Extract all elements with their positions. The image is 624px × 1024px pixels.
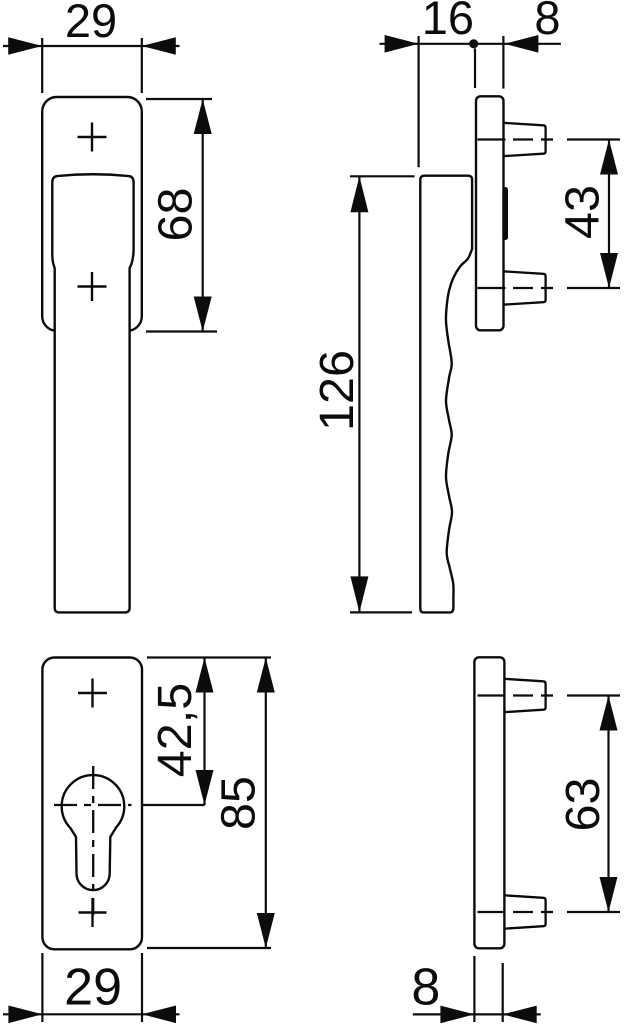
- front view: keyhole horizontal center line: [54, 804, 132, 806]
- dimension 29 (top): width of rose: [3, 0, 180, 93]
- svg-text:29: 29: [65, 0, 117, 47]
- svg-text:68: 68: [149, 188, 203, 242]
- front view: euro-profile cylinder keyhole: [62, 775, 125, 890]
- svg-text:43: 43: [556, 185, 610, 239]
- side view: upper fixing stud: [501, 123, 546, 157]
- svg-text:63: 63: [556, 778, 610, 832]
- dimension 126: handle length: [310, 176, 415, 612]
- front view: plate upper screw-hole cross: [78, 679, 107, 708]
- svg-text:42,5: 42,5: [148, 683, 202, 777]
- front view: security escutcheon plate: [42, 658, 142, 950]
- svg-text:16: 16: [422, 0, 474, 44]
- front view: handle grip and lever: [52, 174, 133, 612]
- dimension 42,5: plate top to cylinder center: [142, 658, 271, 806]
- svg-text:126: 126: [310, 350, 364, 431]
- front view: plate lower screw-hole cross: [79, 898, 107, 927]
- side view: plate upper fixing stud: [502, 679, 546, 713]
- dimension 16: grip-to-plate distance: [380, 0, 561, 167]
- front view: upper screw-hole cross: [78, 123, 107, 152]
- side view: security plate body: [474, 657, 504, 948]
- side view: plate lower stud center line: [478, 911, 621, 913]
- front view: lower screw-hole cross: [78, 272, 107, 301]
- side view: lower fixing stud: [501, 271, 546, 305]
- svg-text:85: 85: [212, 776, 266, 830]
- dimension 29 (bottom): plate width: [3, 953, 180, 1023]
- side view: plate upper stud center line: [478, 694, 621, 696]
- side view: upper stud center line: [478, 138, 621, 140]
- dimension 85: plate height: [147, 658, 275, 949]
- side view: handle grip with finger recesses: [420, 176, 472, 613]
- dimension 68: height of rose: [146, 99, 217, 332]
- front view: keyhole vertical center line: [92, 766, 94, 915]
- svg-text:29: 29: [64, 959, 122, 1017]
- front view: rose backplate: [42, 97, 142, 331]
- side view: plate lower fixing stud: [502, 895, 546, 929]
- side view: lower stud center line: [478, 287, 621, 289]
- dimension 8 (bottom): plate thickness: [411, 956, 540, 1023]
- svg-text:8: 8: [534, 0, 560, 44]
- svg-text:8: 8: [411, 959, 440, 1017]
- side view: rose plate: [476, 96, 504, 330]
- dimension 43: stud spacing (top figure): [556, 140, 619, 289]
- side view: spindle (black): [502, 187, 508, 240]
- dimension 63: plate stud spacing: [556, 696, 618, 913]
- dimension 8 (top): rose plate thickness: [503, 0, 560, 89]
